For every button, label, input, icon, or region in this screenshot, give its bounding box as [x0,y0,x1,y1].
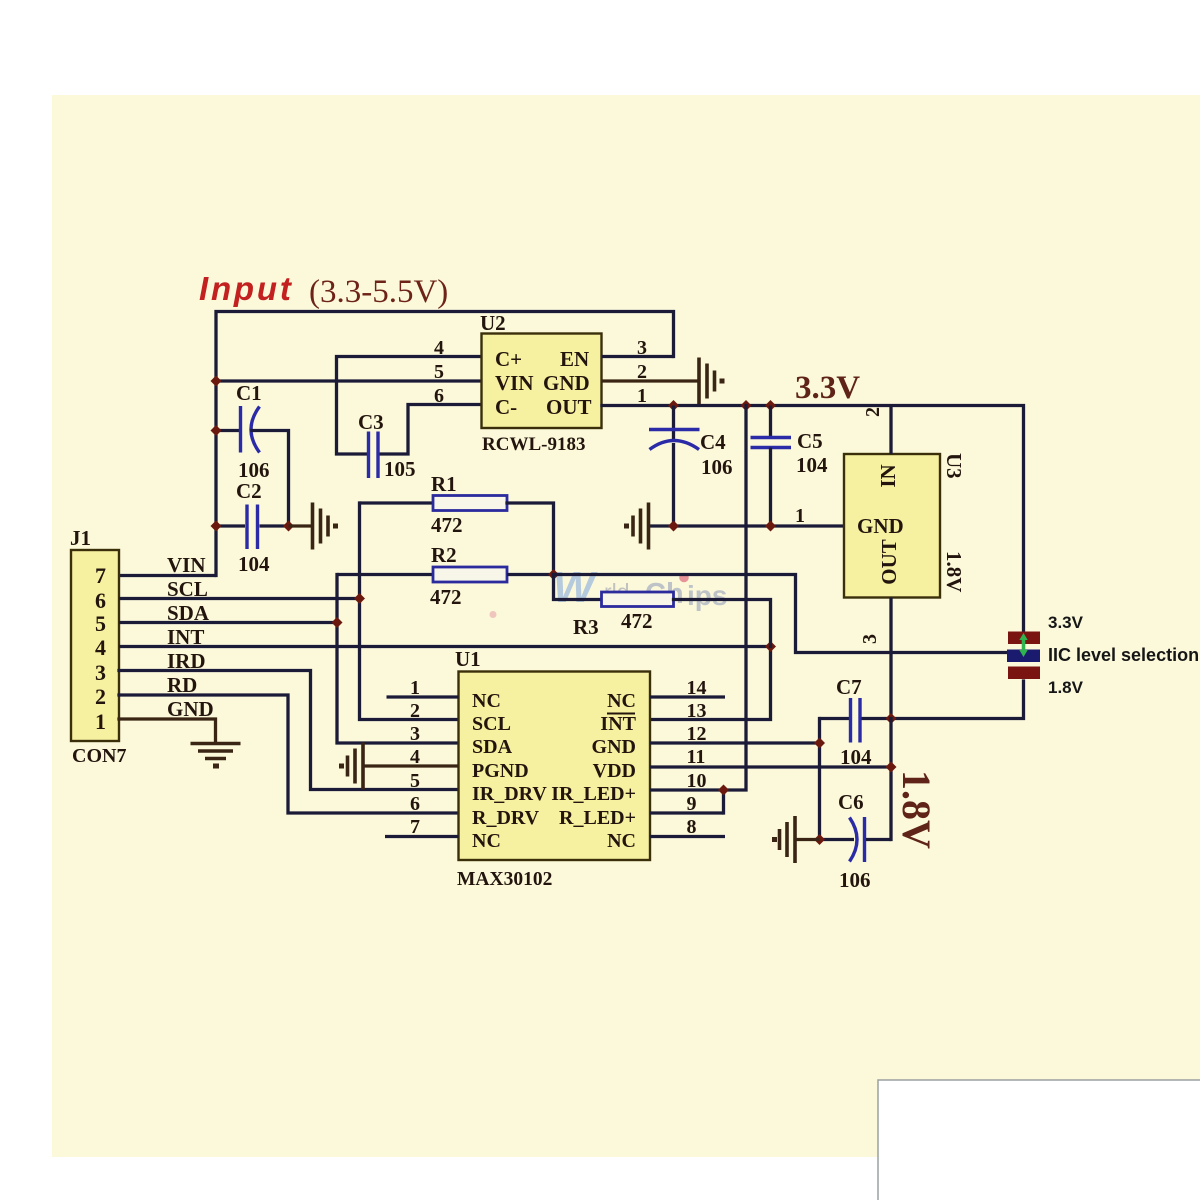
svg-text:C6: C6 [838,790,864,814]
svg-text:6: 6 [410,793,420,815]
junction input-pin5 [211,376,222,387]
wire U1 pin8 NC stub [650,835,725,838]
svg-text:1: 1 [795,505,805,527]
svg-text:INT: INT [600,713,636,735]
svg-text:R_DRV: R_DRV [472,807,540,829]
svg-text:104: 104 [238,552,270,576]
junction VDD-1.8V [886,762,897,773]
svg-text:OUT: OUT [546,395,592,419]
junction C6-gnd [814,834,825,845]
wire U1 pin9 R_LED+ [650,811,724,814]
wire U2 pin5 VIN [216,379,482,382]
svg-text:7: 7 [95,563,106,588]
svg-text:EN: EN [560,347,589,371]
wire pullup rail to IIC select [554,575,1008,653]
svg-text:NC: NC [472,690,501,712]
svg-text:C5: C5 [797,429,823,453]
svg-text:NC: NC [607,830,636,852]
svg-text:106: 106 [701,455,733,479]
capacitor C7 [836,675,891,769]
svg-text:11: 11 [687,746,706,768]
svg-text:2: 2 [862,407,884,417]
svg-text:1.8V: 1.8V [1048,678,1084,697]
wire INT [119,647,771,720]
junction SCL-R1 [354,593,365,604]
svg-text:IR_LED+: IR_LED+ [551,783,636,805]
IC U3 regulator [844,453,966,598]
junction input-C1 [211,425,222,436]
capacitor C4 [649,406,733,527]
resistor R3 [554,575,771,647]
svg-text:U1: U1 [455,647,481,671]
svg-text:GND: GND [592,736,636,758]
svg-text:472: 472 [431,513,463,537]
svg-text:VDD: VDD [593,760,636,782]
svg-text:Input: Input [199,270,294,307]
svg-text:OUT: OUT [877,539,901,585]
resistor R1 [360,472,554,575]
junction SDA-R2 [332,617,343,628]
junction R1-R2 [548,569,559,580]
ground U2 pin2 [699,358,725,405]
svg-text:472: 472 [430,585,462,609]
svg-text:MAX30102: MAX30102 [457,869,552,890]
svg-text:IIC level selection: IIC level selection [1048,645,1199,665]
junction bus-C5 [765,521,776,532]
junction U3 out-C7 [886,713,897,724]
wire U1 pin7 NC stub [385,835,459,838]
capacitor C1 [216,381,289,526]
capacitor C3 [358,410,416,481]
svg-text:3: 3 [859,634,881,644]
svg-text:3: 3 [95,660,106,685]
watermark WorldChips [490,563,728,618]
ground PGND [339,743,363,790]
svg-text:13: 13 [687,700,707,722]
svg-text:1: 1 [637,385,647,407]
wire U1 pin4 PGND [365,764,459,767]
svg-text:106: 106 [839,868,871,892]
svg-text:R2: R2 [431,543,457,567]
svg-text:5: 5 [434,361,444,383]
junction bus-C4 [668,521,679,532]
ground J1 [191,744,241,769]
svg-text:SDA: SDA [472,736,513,758]
wire 3.3V output rail [602,406,1024,632]
svg-text:3.3V: 3.3V [1048,613,1084,632]
svg-text:C+: C+ [495,347,522,371]
svg-text:6: 6 [95,588,106,613]
IIC level selection jumper [1007,632,1040,680]
wire U2 pin4 to C3 [337,357,482,455]
svg-text:2: 2 [95,684,106,709]
svg-text:C1: C1 [236,381,262,405]
junction INT-R3 [765,641,776,652]
wire U3 pin2 [889,406,892,455]
ground C4 bus [624,503,649,550]
svg-text:SCL: SCL [472,713,511,735]
capacitor C6 [820,790,892,892]
capacitor C5 [751,406,829,527]
wire U1 pin14 NC stub [650,695,725,698]
svg-text:R1: R1 [431,472,457,496]
svg-text:U3: U3 [942,453,966,479]
junction C1-C2-gnd [283,521,294,532]
capacitor C2 [216,479,289,576]
wire U2 pin6 to C3 [380,405,482,455]
wire VIN J1 to input rail [119,574,216,577]
wire RD [119,695,459,813]
junction input-C2 [211,521,222,532]
svg-text:7: 7 [410,816,420,838]
svg-text:5: 5 [95,611,106,636]
IC U2 RCWL-9183 [480,311,602,455]
svg-text:W: W [553,563,598,612]
wire U1 pin12 GND to C7 [650,719,849,840]
svg-text:C4: C4 [700,430,726,454]
white panel bottom right [878,1080,1200,1200]
wire GND J1 [119,719,216,742]
svg-text:PGND: PGND [472,760,529,782]
wire input top rail [216,312,674,576]
svg-text:ips: ips [687,580,727,611]
wire U1 pin1 NC stub [387,695,459,698]
svg-text:RCWL-9183: RCWL-9183 [482,434,585,455]
svg-text:3.3V: 3.3V [795,370,860,406]
svg-text:3: 3 [410,723,420,745]
wire U2 pin3 EN [602,355,674,358]
ground C2 [289,503,339,550]
wire ground bus to U3 pin1 [649,524,845,527]
svg-text:1: 1 [95,709,106,734]
svg-text:4: 4 [95,635,106,660]
wire U2 pin2 to ground [602,379,698,382]
svg-text:VIN: VIN [167,553,206,577]
svg-text:1.8V: 1.8V [894,770,939,849]
svg-text:1.8V: 1.8V [942,551,966,592]
svg-text:8: 8 [687,816,697,838]
svg-text:(3.3-5.5V): (3.3-5.5V) [309,274,448,310]
wire U3 pin3 [889,598,892,719]
wire U1 pin10 IR_LED+ [650,788,724,791]
junction pin12-C7 [814,738,825,749]
ground C6 [772,816,820,863]
wire 1.8V node to IIC select [891,681,1024,719]
junction rail-746 [741,400,752,411]
svg-text:4: 4 [434,337,444,359]
svg-text:IR_DRV: IR_DRV [472,783,547,805]
svg-text:104: 104 [796,453,828,477]
svg-text:R_LED+: R_LED+ [559,807,636,829]
svg-text:IN: IN [876,464,900,487]
svg-text:J1: J1 [70,526,91,550]
svg-text:R3: R3 [573,615,599,639]
svg-text:C3: C3 [358,410,384,434]
junction LED rail [718,785,729,796]
svg-text:C2: C2 [236,479,262,503]
connector J1 [70,526,126,767]
wire SDA [119,575,459,744]
resistor R2 [337,543,554,609]
wire U1 pin11 VDD to 1.8V [650,719,891,840]
svg-text:6: 6 [434,385,444,407]
svg-text:C-: C- [495,395,517,419]
wire IRD [119,671,459,790]
svg-text:105: 105 [384,457,416,481]
svg-text:2: 2 [410,700,420,722]
svg-text:NC: NC [607,690,636,712]
svg-text:GND: GND [543,371,590,395]
svg-text:GND: GND [857,514,904,538]
svg-text:U2: U2 [480,311,506,335]
svg-text:CON7: CON7 [72,745,126,767]
svg-text:5: 5 [410,770,420,792]
wire 3.3V rail down to LEDs [724,406,747,814]
IC U1 MAX30102 [455,647,650,890]
svg-text:472: 472 [621,609,653,633]
svg-text:C7: C7 [836,675,862,699]
junction rail-C5 [765,400,776,411]
svg-text:VIN: VIN [495,371,534,395]
junction rail-C4 [668,400,679,411]
node Input label [199,270,448,310]
wire SCL [119,503,459,720]
svg-text:NC: NC [472,830,501,852]
